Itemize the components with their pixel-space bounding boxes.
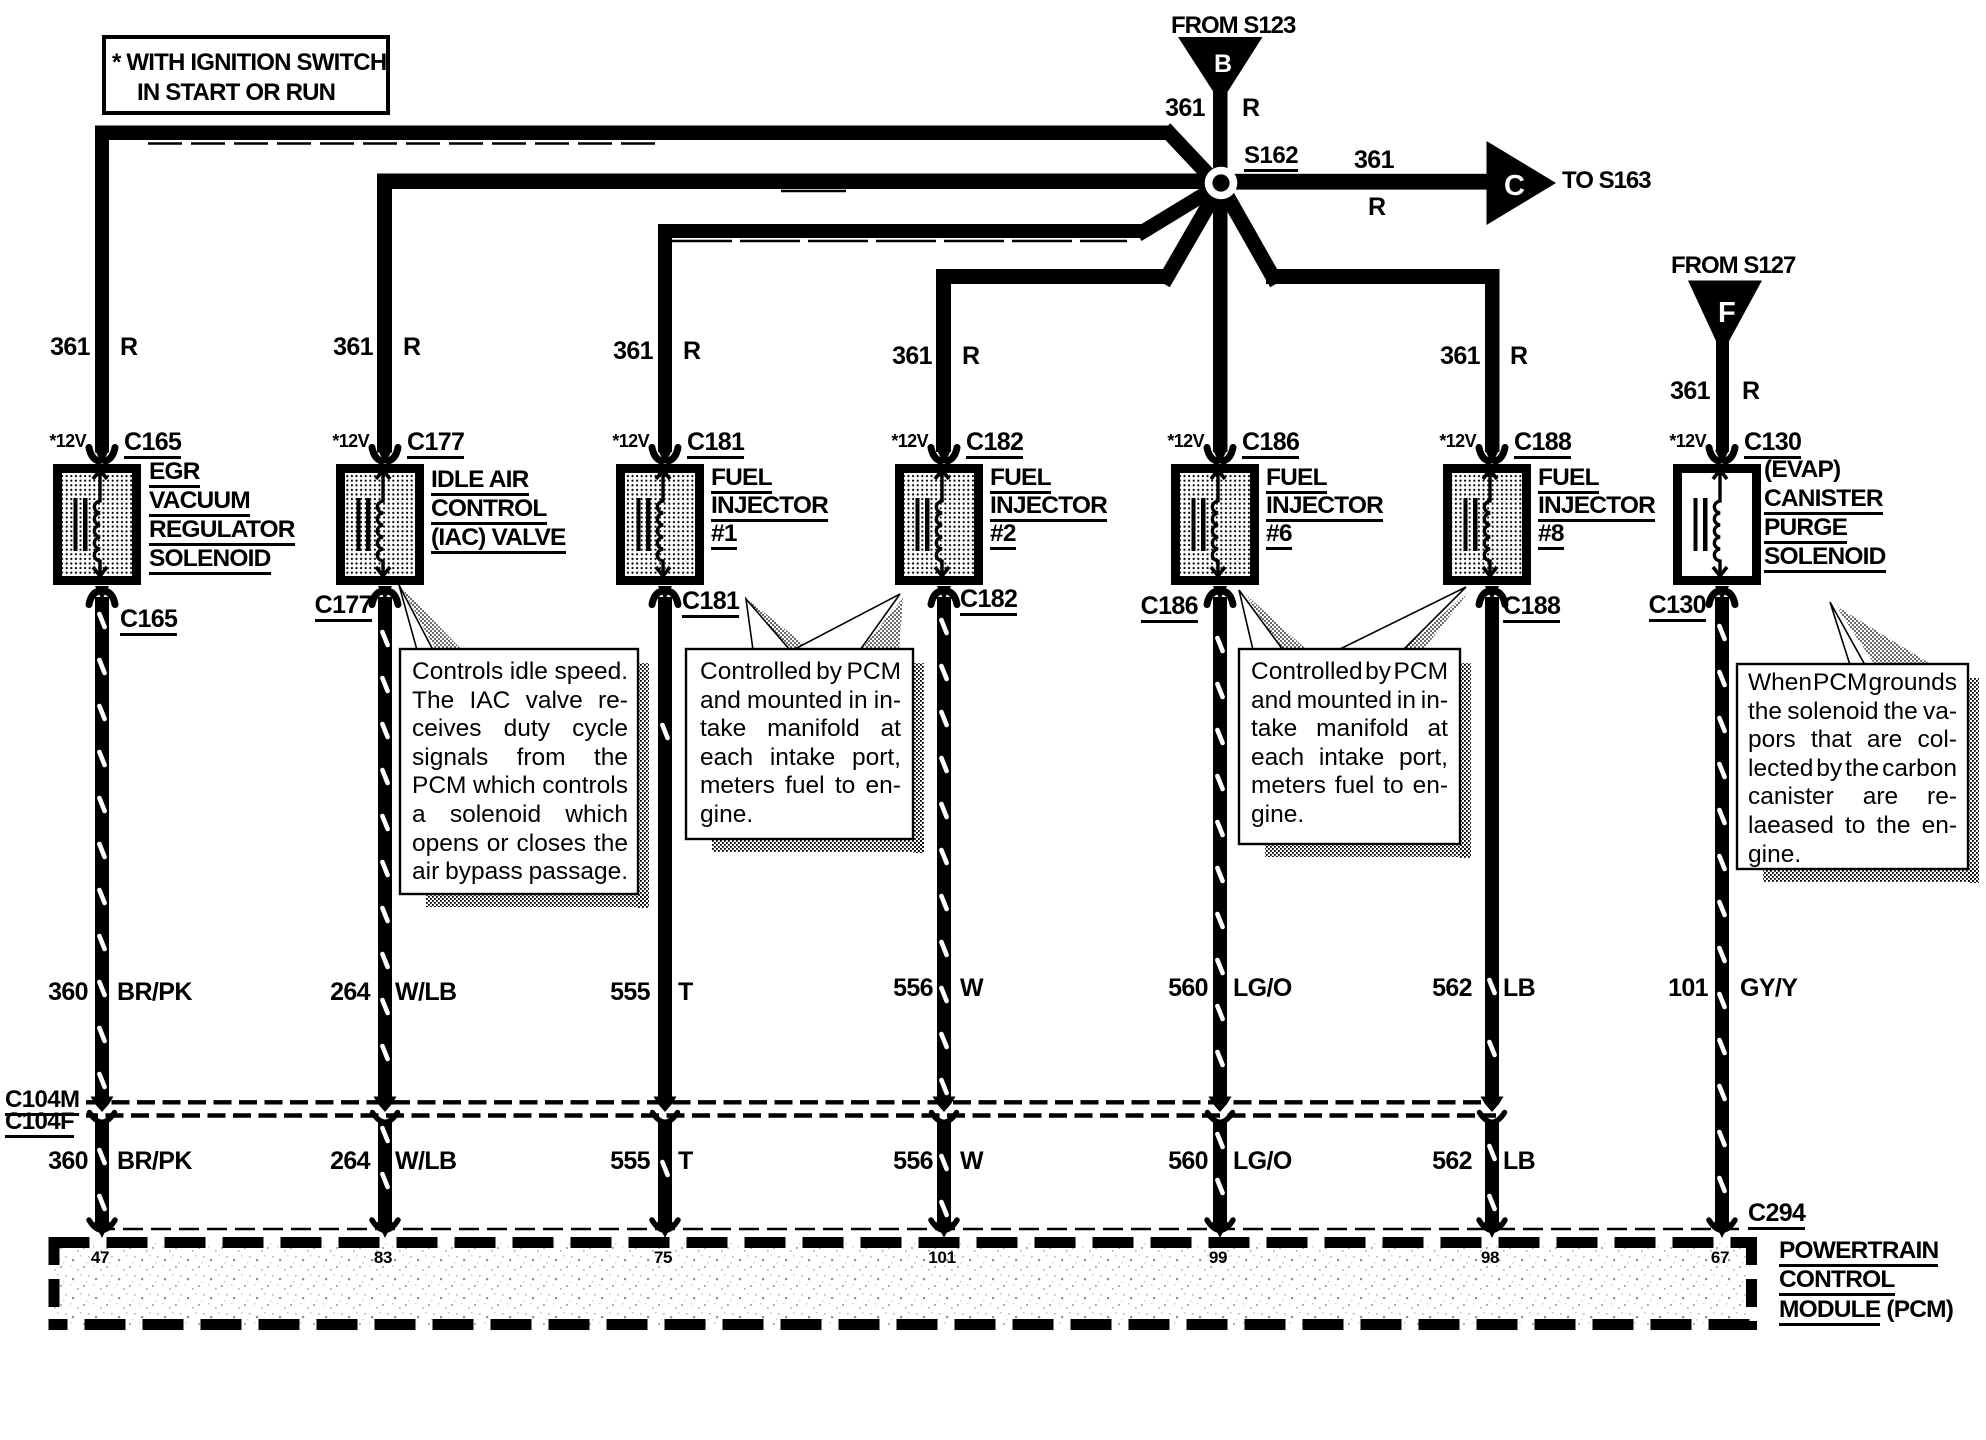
FI8 component box (5) bbox=[1443, 464, 1531, 585]
wire below FI1 upper segment bbox=[658, 597, 672, 1099]
connector C104 junction col3 bbox=[654, 1097, 677, 1113]
splice S162 dot bbox=[1212, 174, 1229, 191]
connector C104 junction col5 bbox=[1209, 1097, 1232, 1113]
wire 361 R feed to injector 2 (line 4) bbox=[936, 269, 1170, 284]
triangle B from S123 bbox=[1178, 37, 1263, 92]
wire 361 R feed to injector 8 (line 6) bbox=[1266, 269, 1499, 284]
wire below FI2 upper segment bbox=[937, 597, 951, 1099]
diagonal splice to line3 bbox=[1144, 186, 1218, 231]
label C182 bottom bbox=[960, 587, 1017, 612]
label BR/PK upper bbox=[117, 980, 192, 1005]
callout text FI12 bbox=[700, 658, 901, 830]
label R col6 bbox=[1510, 344, 1527, 369]
label LB lower bbox=[1503, 1149, 1535, 1174]
triangle F from S127 bbox=[1688, 281, 1762, 343]
label R col3 bbox=[683, 339, 700, 364]
solenoid coil FI2 bbox=[936, 472, 942, 576]
label C177 bottom bbox=[315, 593, 372, 618]
connector arrow into PCM col2 bbox=[372, 1220, 398, 1231]
connector arrow into PCM col3 bbox=[652, 1220, 678, 1231]
label 264 upper bbox=[330, 980, 370, 1005]
note text ignition switch bbox=[112, 48, 386, 108]
connector bottom FI8 bbox=[1485, 586, 1499, 600]
triangle C to S163 bbox=[1487, 141, 1557, 225]
scan ghost line under top feed bbox=[148, 142, 660, 145]
connector bottom FI2 bbox=[937, 586, 951, 600]
connector bottom EVAP bbox=[1715, 586, 1729, 600]
label C186 bottom bbox=[1141, 594, 1198, 619]
EGR component box (0) bbox=[53, 464, 141, 585]
connector top EGR bbox=[89, 448, 99, 462]
label 361 (B wire) bbox=[1165, 96, 1205, 121]
wire slashes FI2 upper bbox=[941, 620, 946, 633]
label *12V col2 bbox=[332, 432, 369, 450]
solenoid plates EGR bbox=[74, 498, 78, 551]
wire slashes EGR upper bbox=[99, 614, 104, 627]
wire 361 R feed to IAC (line 2) bbox=[377, 174, 1222, 190]
label C186 top bbox=[1242, 430, 1299, 455]
wire col2 vertical bbox=[377, 174, 392, 453]
wire col7 vertical from triangle F bbox=[1716, 336, 1729, 452]
callout box FI68 bbox=[1239, 649, 1460, 844]
scan ghost line under branch 3 bbox=[672, 240, 1127, 243]
wire below FI8 lower segment bbox=[1485, 1120, 1499, 1223]
label C (triangle) bbox=[1504, 172, 1524, 201]
EVAP component box (6) bbox=[1673, 464, 1761, 585]
connector C104 junction col4 bbox=[933, 1097, 956, 1113]
connector bottom FI6 bbox=[1213, 586, 1227, 600]
solenoid coil FI1 bbox=[657, 472, 663, 576]
wire col1 vertical bbox=[95, 126, 109, 453]
callout shadow FI12 bbox=[913, 663, 924, 853]
solenoid plates FI2 bbox=[916, 498, 920, 551]
callout pointer EVAP bbox=[1836, 606, 1932, 665]
label FUEL INJECTOR #2 bbox=[990, 464, 1107, 548]
label EGR VACUUM REGULATOR SOLENOID bbox=[149, 457, 295, 573]
solenoid coil FI6 bbox=[1212, 472, 1218, 576]
wire slashes FI1 upper bbox=[662, 725, 667, 738]
label 361 col6 bbox=[1440, 344, 1480, 369]
PCM module box fill bbox=[54, 1243, 1751, 1325]
connector arrow into PCM col4 bbox=[931, 1220, 957, 1231]
label pin 98 bbox=[1460, 1249, 1520, 1266]
note box with ignition switch bbox=[104, 37, 388, 113]
connector C104 junction col6 bbox=[1481, 1097, 1504, 1113]
connector bottom FI1 bbox=[658, 586, 672, 600]
wire slashes FI8 upper bbox=[1489, 980, 1494, 993]
label R col1 bbox=[120, 335, 137, 360]
wire slashes IAC upper bbox=[382, 632, 387, 645]
label 360 upper bbox=[48, 980, 88, 1005]
label C177 top bbox=[407, 430, 464, 455]
connector C294 dashed line bbox=[95, 1228, 1741, 1231]
wire col3 vertical bbox=[658, 224, 672, 452]
label LB upper bbox=[1503, 976, 1535, 1001]
wire below FI2 lower segment bbox=[937, 1120, 951, 1223]
wire col6 vertical bbox=[1485, 269, 1500, 452]
label FROM S123 bbox=[1171, 14, 1295, 38]
diagonal splice to line6 bbox=[1222, 187, 1273, 277]
callout box EVAP bbox=[1737, 664, 1968, 869]
FI2 component box (3) bbox=[895, 464, 983, 585]
label *12V col3 bbox=[612, 432, 649, 450]
label S162 bbox=[1244, 144, 1298, 168]
label POWERTRAIN CONTROL MODULE (PCM) bbox=[1779, 1236, 1953, 1325]
label C130 top bbox=[1744, 430, 1801, 455]
solenoid coil EGR bbox=[94, 472, 100, 576]
solenoid plates IAC bbox=[357, 498, 361, 551]
label C294 bbox=[1748, 1201, 1805, 1226]
label 361 col4 bbox=[892, 344, 932, 369]
label 562 upper bbox=[1432, 976, 1472, 1001]
wire col4 vertical bbox=[936, 269, 951, 452]
connector C104F dashed line bbox=[86, 1113, 1496, 1117]
label C104M bbox=[5, 1088, 79, 1112]
label BR/PK lower bbox=[117, 1149, 192, 1174]
wire col5 vertical from triangle B through splice bbox=[1213, 88, 1228, 452]
label LG/O upper bbox=[1233, 976, 1292, 1001]
scan ghost line under branch 2 bbox=[781, 190, 846, 193]
label *12V col7 bbox=[1669, 432, 1706, 450]
connector C104M dashed line bbox=[86, 1100, 1496, 1104]
label *12V col6 bbox=[1439, 432, 1476, 450]
wire below FI1 lower segment bbox=[658, 1120, 672, 1223]
wire below FI8 upper segment bbox=[1485, 597, 1499, 1099]
callout text IAC bbox=[412, 658, 628, 887]
label pin 99 bbox=[1188, 1249, 1248, 1266]
connector bottom EGR bbox=[95, 586, 109, 600]
wire slashes FI2 lower bbox=[941, 1156, 946, 1169]
label 562 lower bbox=[1432, 1149, 1472, 1174]
callout shadow FI68 bbox=[1460, 663, 1471, 858]
wire below FI6 upper segment bbox=[1213, 597, 1227, 1099]
label W lower bbox=[960, 1149, 983, 1174]
connector bottom IAC bbox=[378, 586, 392, 600]
label *12V col1 bbox=[49, 432, 86, 450]
label TO S163 bbox=[1562, 169, 1651, 193]
callout pointer FI2 bbox=[861, 598, 903, 650]
solenoid plates EVAP bbox=[1694, 498, 1698, 551]
connector arrow into PCM col5 bbox=[1207, 1220, 1233, 1231]
label pin 67 bbox=[1690, 1249, 1750, 1266]
diagonal splice to line4 bbox=[1167, 187, 1219, 277]
callout pointer FI6 bbox=[1244, 593, 1307, 650]
wire below FI6 lower segment bbox=[1213, 1120, 1227, 1223]
connector top FI1 bbox=[652, 448, 662, 462]
solenoid plates FI8 bbox=[1464, 498, 1468, 551]
label pin 83 bbox=[353, 1249, 413, 1266]
label 361 (F wire) bbox=[1670, 379, 1710, 404]
label FUEL INJECTOR #6 bbox=[1266, 464, 1383, 548]
label 560 lower bbox=[1168, 1149, 1208, 1174]
wire 361 R feed to injector 1 (line 3) bbox=[658, 224, 1146, 238]
label T upper bbox=[678, 980, 693, 1005]
label R (F wire) bbox=[1742, 379, 1759, 404]
label C165 top bbox=[124, 430, 181, 455]
solenoid coil FI8 bbox=[1484, 472, 1490, 576]
connector top FI6 bbox=[1207, 448, 1217, 462]
solenoid plates FI1 bbox=[637, 498, 641, 551]
label 360 lower bbox=[48, 1149, 88, 1174]
wire slashes EGR lower bbox=[99, 1150, 104, 1163]
connector arrow into PCM col7 bbox=[1709, 1220, 1735, 1231]
label C188 bottom bbox=[1503, 594, 1560, 619]
label 556 lower bbox=[893, 1149, 933, 1174]
label R col2 bbox=[403, 335, 420, 360]
label T lower bbox=[678, 1149, 693, 1174]
label 361 col2 bbox=[333, 335, 373, 360]
label 361 col1 bbox=[50, 335, 90, 360]
label 264 lower bbox=[330, 1149, 370, 1174]
label C181 bottom bbox=[682, 589, 739, 614]
callout pointer FI1 bbox=[751, 602, 811, 650]
label R (B wire) bbox=[1242, 96, 1259, 121]
label C130 bottom bbox=[1649, 593, 1706, 618]
callout box FI12 bbox=[686, 649, 913, 839]
connector arrow into PCM col6 bbox=[1479, 1220, 1505, 1231]
wire slashes FI6 lower bbox=[1217, 1134, 1222, 1147]
callout pointer IAC bbox=[402, 588, 462, 650]
wire slashes FI6 upper bbox=[1217, 638, 1222, 651]
wire slashes FI8 lower bbox=[1489, 1146, 1494, 1159]
label pin 75 bbox=[633, 1249, 693, 1266]
label C182 top bbox=[966, 430, 1023, 455]
label R (to S163) bbox=[1368, 195, 1385, 220]
label EVAP CANISTER PURGE SOLENOID bbox=[1764, 455, 1886, 571]
label 101 upper bbox=[1668, 976, 1708, 1001]
label FUEL INJECTOR #8 bbox=[1538, 464, 1655, 548]
wire slashes FI1 lower bbox=[662, 1162, 667, 1175]
label W/LB upper bbox=[395, 980, 456, 1005]
label GY/Y upper bbox=[1740, 976, 1797, 1001]
callout text EVAP bbox=[1748, 669, 1957, 869]
label pin 101 bbox=[912, 1249, 972, 1266]
label B (triangle) bbox=[1214, 52, 1231, 77]
connector C104 junction col1 bbox=[91, 1097, 114, 1113]
callout shadow EVAP bbox=[1968, 678, 1979, 883]
label 361 (to S163) bbox=[1354, 148, 1394, 173]
FI1 component box (2) bbox=[616, 464, 704, 585]
label 555 upper bbox=[610, 980, 650, 1005]
splice S162 white ring bbox=[1205, 167, 1238, 200]
wire 361 R to S163 (right horizontal) bbox=[1220, 174, 1487, 190]
callout pointer FI8 bbox=[1403, 589, 1471, 650]
label LG/O lower bbox=[1233, 1149, 1292, 1174]
label 555 lower bbox=[610, 1149, 650, 1174]
connector top FI8 bbox=[1479, 448, 1489, 462]
solenoid coil IAC bbox=[377, 472, 383, 576]
label *12V col5 bbox=[1167, 432, 1204, 450]
connector top FI2 bbox=[931, 448, 941, 462]
label IDLE AIR CONTROL (IAC) VALVE bbox=[431, 465, 566, 552]
wire 361 R feed to EGR (line 1) bbox=[95, 126, 1173, 141]
wire below EGR lower segment bbox=[95, 1120, 109, 1223]
solenoid plates FI6 bbox=[1192, 498, 1196, 551]
label F (triangle) bbox=[1718, 299, 1735, 328]
callout box IAC bbox=[400, 649, 638, 894]
wire below IAC lower segment bbox=[378, 1120, 392, 1223]
label C165 bottom bbox=[120, 607, 177, 632]
wire slashes IAC lower bbox=[382, 1128, 387, 1141]
solenoid coil EVAP bbox=[1714, 472, 1720, 576]
connector C104 junction col2 bbox=[374, 1097, 397, 1113]
connector arrow into PCM col1 bbox=[89, 1220, 115, 1231]
label W/LB lower bbox=[395, 1149, 456, 1174]
connector top EVAP bbox=[1709, 448, 1719, 462]
wire slashes EVAP bbox=[1719, 626, 1724, 639]
wire below EGR upper segment bbox=[95, 597, 109, 1099]
label R col4 bbox=[962, 344, 979, 369]
label 560 upper bbox=[1168, 976, 1208, 1001]
FI6 component box (4) bbox=[1171, 464, 1259, 585]
IAC component box (1) bbox=[336, 464, 424, 585]
label W upper bbox=[960, 976, 983, 1001]
callout shadow IAC bbox=[638, 663, 649, 908]
label C181 top bbox=[687, 430, 744, 455]
label C104F bbox=[5, 1110, 74, 1134]
label *12V col4 bbox=[891, 432, 928, 450]
diagonal splice to line1 bbox=[1170, 134, 1219, 186]
callout text FI68 bbox=[1251, 658, 1448, 830]
label pin 47 bbox=[70, 1249, 130, 1266]
label C188 top bbox=[1514, 430, 1571, 455]
connector top IAC bbox=[372, 448, 382, 462]
label 361 col3 bbox=[613, 339, 653, 364]
label 556 upper bbox=[893, 976, 933, 1001]
label FUEL INJECTOR #1 bbox=[711, 464, 828, 548]
wire below IAC upper segment bbox=[378, 597, 392, 1099]
PCM module dashed border bbox=[49, 1237, 1758, 1248]
wire below EVAP upper segment bbox=[1715, 597, 1729, 1223]
label FROM S127 bbox=[1671, 254, 1795, 278]
